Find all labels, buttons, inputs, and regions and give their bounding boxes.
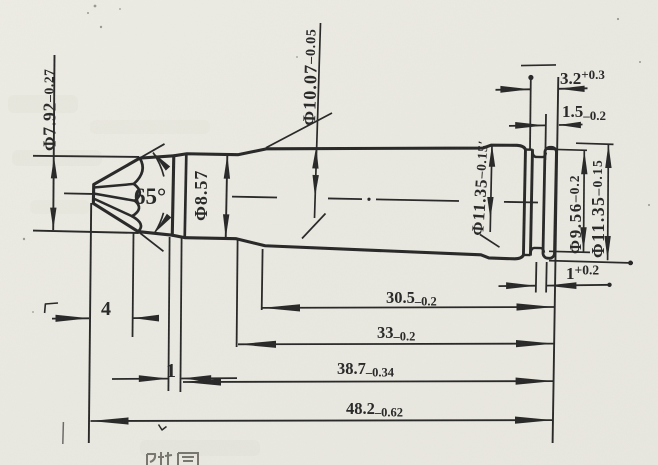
dimension 3.2 line and arrows [496, 88, 531, 91]
extension line shoulder-body (dim 30.5) [261, 249, 264, 310]
phi11.35 band dimension line [490, 145, 492, 233]
phi7.92 dimension line with arrows [53, 55, 54, 230]
head end face verticals V1 V2 [523, 149, 525, 255]
caption tu (figure) character strokes [147, 452, 172, 465]
phi11.35 band leader diagonal [480, 235, 500, 248]
phi7.92 extension lines [33, 156, 139, 157]
phi11.35 rim dimension line with arrows [607, 144, 610, 260]
case mouth chamfer and neck top edge [174, 139, 526, 163]
stray corner mark left [45, 303, 58, 304]
extension line neck-shoulder (dim 33) [237, 240, 238, 347]
cartridge case outline [93, 154, 174, 235]
faint smudges [8, 95, 78, 113]
65 deg angle extension lines [140, 143, 165, 158]
dimension 38.7 line and arrows [183, 380, 554, 383]
extension line pair for dim 1 [168, 237, 169, 391]
phi9.56 extension lines [547, 149, 587, 150]
extension line for 1.5 (rim left) [544, 114, 547, 160]
dimension 1+0.2 line and arrows [499, 285, 537, 287]
phi10.07 diagonal to shoulder corner [266, 113, 332, 148]
faint stub bottom left [62, 422, 65, 444]
extractor groove [532, 151, 546, 157]
neck full-diameter vertical at mouth chamfer end [185, 154, 187, 238]
right head-face common extension line [553, 77, 559, 443]
stray mark below 48.2 [159, 425, 167, 431]
dimension 30.5 line and arrows [262, 306, 555, 309]
left overall extension line (tip) [89, 203, 91, 443]
neck bottom edge, shoulder, body bottom edge [172, 235, 524, 259]
rim [543, 147, 557, 258]
phi11.35 rim extension lines [576, 143, 614, 144]
phi8.57 dimension line with arrows [226, 155, 228, 239]
dimension 4 line and arrows [52, 317, 89, 319]
dimension 1.5 line and arrows [509, 124, 545, 127]
phi10.07 dimension line [315, 23, 321, 218]
dimension 48.2 line and arrows [91, 419, 554, 422]
crimp petal scallop arcs [132, 158, 143, 232]
extension line at petal base (dim 4) [133, 233, 134, 337]
crimp petal fold lines [94, 183, 134, 188]
dimension 1 line and arrows [112, 378, 169, 380]
center axis chain line [64, 192, 92, 195]
stray scan dash above 3.2 [521, 64, 556, 67]
dimension 33 line and arrows [238, 343, 554, 346]
extension line for 3.2 with dot [529, 78, 532, 150]
phi10.07 lower diagonal [302, 214, 326, 239]
phi9.56 dimension line with arrows [583, 150, 586, 252]
extension lines for 1+0.2 (groove) [535, 262, 538, 293]
scan specks [94, 5, 97, 8]
65 deg dimension arc with arrows [153, 152, 165, 176]
